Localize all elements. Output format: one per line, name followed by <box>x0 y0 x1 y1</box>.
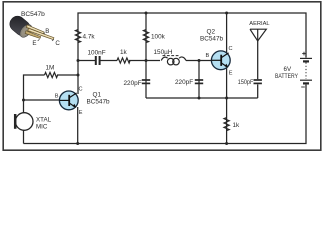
svg-text:150µH: 150µH <box>154 49 173 56</box>
wire mid line right <box>129 60 160 62</box>
svg-text:C: C <box>79 86 83 92</box>
pin tick C <box>52 40 54 41</box>
svg-text:220pF: 220pF <box>124 80 142 87</box>
resistor R 1k horizontal <box>117 58 130 63</box>
resistor R 4.7k vertical <box>75 30 80 43</box>
microphone XTAL MIC <box>15 113 33 131</box>
svg-text:B: B <box>206 53 210 59</box>
wire Q1 base <box>24 99 60 101</box>
svg-text:150pF: 150pF <box>238 79 254 86</box>
resistor R 100k vertical <box>143 30 148 43</box>
wire mic to 1M corner <box>24 75 45 112</box>
svg-text:E: E <box>229 70 233 76</box>
svg-text:BC547b: BC547b <box>21 11 45 18</box>
lead E <box>25 31 41 39</box>
wire aerial to emitter line <box>257 84 259 98</box>
pin tick E <box>38 39 40 41</box>
svg-text:1k: 1k <box>233 122 241 129</box>
svg-text:E: E <box>79 110 83 116</box>
svg-text:XTAL: XTAL <box>36 116 52 123</box>
svg-text:220pF: 220pF <box>175 79 193 86</box>
svg-text:BC547b: BC547b <box>87 98 111 105</box>
svg-text:1M: 1M <box>46 65 55 72</box>
svg-text:B: B <box>45 28 49 35</box>
lead C <box>28 28 54 39</box>
capacitor 220pF right <box>195 80 203 83</box>
battery 6V <box>300 52 312 87</box>
svg-text:MIC: MIC <box>36 123 48 130</box>
wire Q2 emitter <box>226 67 228 144</box>
resistor R 1k vertical (emitter Q2) <box>224 118 229 131</box>
svg-text:Q1: Q1 <box>93 91 102 98</box>
wire 1M to collector <box>57 74 78 76</box>
svg-text:C: C <box>55 40 60 47</box>
wire Q1 emitter <box>77 107 79 144</box>
svg-text:6V: 6V <box>284 66 292 73</box>
wire mid line center <box>100 60 117 62</box>
svg-text:4.7k: 4.7k <box>83 33 96 40</box>
svg-text:E: E <box>32 40 36 47</box>
wire emitter line <box>146 97 258 99</box>
wire right 220pF branch <box>198 61 200 99</box>
wire top rail <box>78 13 306 61</box>
wire bottom rail <box>24 85 307 144</box>
svg-text:Q2: Q2 <box>207 28 216 35</box>
svg-text:1k: 1k <box>120 49 128 56</box>
wire mic bottom <box>23 131 25 144</box>
resistor R 1M horizontal <box>45 72 58 77</box>
aerial antenna <box>250 29 266 41</box>
svg-text:AERIAL: AERIAL <box>249 21 270 27</box>
inductor L 150uH <box>161 56 186 65</box>
svg-text:100k: 100k <box>151 33 166 40</box>
capacitor 150pF <box>254 80 262 83</box>
capacitor 100nF <box>96 56 100 65</box>
transistor Q1 BC547b <box>59 91 78 110</box>
svg-text:100nF: 100nF <box>88 50 106 57</box>
border frame <box>3 2 321 150</box>
wire left 220pF branch <box>145 61 147 99</box>
transistor Q2 BC547b <box>211 51 230 70</box>
transistor photo BC547b (TO-92 package) <box>7 13 54 40</box>
wire 100k branch <box>145 13 147 61</box>
pin tick B <box>44 33 45 34</box>
wire Q1 collector <box>77 61 79 95</box>
svg-text:BATTERY: BATTERY <box>275 73 298 80</box>
wire aerial stem <box>257 41 259 79</box>
wire Q2 collector <box>226 13 228 55</box>
svg-text:C: C <box>229 46 233 52</box>
wire mid line left <box>78 60 96 62</box>
svg-text:BC547b: BC547b <box>200 35 224 42</box>
capacitor 220pF left <box>142 80 150 83</box>
wire base Q2 <box>186 60 212 62</box>
svg-text:B: B <box>55 94 59 100</box>
lead B <box>26 25 44 34</box>
